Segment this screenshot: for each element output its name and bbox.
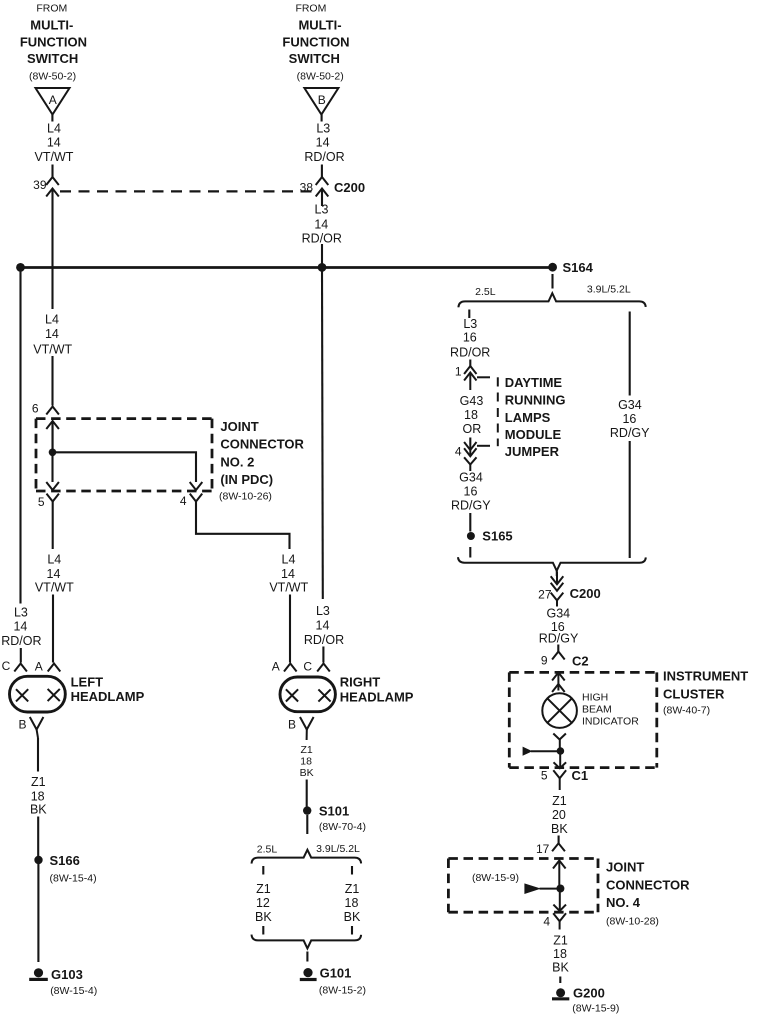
svg-text:12: 12 — [256, 896, 270, 910]
svg-text:BEAM: BEAM — [582, 704, 612, 716]
wire label Z1 18 BK (left) — [30, 775, 47, 817]
wire label L3 16 RD/OR — [450, 317, 490, 359]
high beam indicator lamp — [542, 693, 577, 728]
triangle connector A — [36, 88, 70, 115]
svg-text:Z1: Z1 — [552, 794, 567, 808]
wire into connector 38 — [321, 165, 323, 178]
svg-text:C: C — [303, 660, 312, 674]
svg-text:RD/OR: RD/OR — [304, 150, 344, 164]
svg-text:14: 14 — [314, 218, 328, 232]
wire S166 to G103 — [37, 864, 39, 962]
svg-text:L3: L3 — [316, 604, 330, 618]
svg-text:OR: OR — [463, 422, 482, 436]
svg-text:RD/GY: RD/GY — [539, 632, 579, 646]
wire label L3 14 RD/OR (above C200) — [304, 122, 344, 165]
svg-text:G34: G34 — [618, 398, 642, 412]
svg-text:VT/WT: VT/WT — [269, 581, 308, 595]
svg-text:Z1: Z1 — [31, 775, 46, 789]
arrow to other circuits (cluster) — [523, 747, 557, 756]
svg-text:RD/OR: RD/OR — [302, 232, 342, 246]
svg-text:Z1: Z1 — [256, 882, 271, 896]
right branch wire G34 — [629, 312, 631, 396]
svg-text:RD/OR: RD/OR — [304, 633, 344, 647]
svg-text:(8W-50-2): (8W-50-2) — [29, 71, 76, 83]
wire label L3 14 RD/OR (below C200) — [302, 203, 342, 246]
label DAYTIME RUNNING LAMPS MODULE JUMPER — [505, 375, 566, 459]
svg-text:C1: C1 — [572, 768, 589, 783]
wire label Z1 12 BK (2.5L) — [255, 882, 272, 924]
svg-text:B: B — [318, 93, 326, 107]
svg-text:BK: BK — [552, 961, 569, 975]
wire to S101 — [306, 780, 308, 807]
entry arrow into cluster — [552, 673, 565, 693]
svg-text:3.9L/5.2L: 3.9L/5.2L — [316, 843, 360, 855]
wire label L4 14 VT/WT (left lamp) — [35, 553, 74, 595]
left headlamp bulb X right — [48, 689, 60, 701]
svg-text:16: 16 — [464, 485, 478, 499]
stub into connector 9 — [557, 645, 559, 652]
svg-text:(8W-40-7): (8W-40-7) — [663, 705, 710, 717]
svg-text:18: 18 — [300, 755, 312, 767]
merge brace bottom (S164 branch) — [458, 557, 646, 571]
svg-text:MODULE: MODULE — [505, 427, 562, 442]
svg-text:L3: L3 — [316, 122, 330, 136]
split brace top (ground branch) — [252, 850, 362, 864]
in-line connector 38 / C200 — [316, 177, 329, 197]
svg-text:BK: BK — [300, 767, 314, 779]
svg-text:G101: G101 — [320, 966, 352, 981]
internal wire joint connector no.2 — [51, 421, 53, 482]
svg-text:C200: C200 — [570, 586, 601, 601]
svg-text:NO. 2: NO. 2 — [220, 455, 254, 470]
arrow to other circuits (joint connector no.4) — [524, 883, 556, 894]
left headlamp body — [10, 676, 66, 712]
svg-text:VT/WT: VT/WT — [35, 150, 74, 164]
svg-text:S166: S166 — [50, 853, 80, 868]
svg-text:18: 18 — [345, 896, 359, 910]
svg-text:FUNCTION: FUNCTION — [282, 35, 349, 50]
svg-text:RD/OR: RD/OR — [1, 634, 41, 648]
ground G200 — [552, 988, 569, 1000]
svg-text:G43: G43 — [460, 394, 484, 408]
svg-text:L3: L3 — [463, 317, 477, 331]
svg-text:VT/WT: VT/WT — [33, 343, 72, 357]
left branch stub — [468, 310, 470, 319]
svg-text:4: 4 — [180, 494, 187, 508]
wire 38 down to bus — [321, 189, 323, 207]
junction dot inside joint connector no.2 — [49, 449, 57, 457]
label JOINT CONNECTOR NO. 4 (8W-10-28) — [606, 860, 690, 928]
wire pin4 jog to right headlamp A — [196, 502, 290, 550]
left branch stub bottom — [262, 926, 264, 935]
instrument cluster dashed box — [509, 672, 657, 767]
svg-text:S164: S164 — [563, 260, 594, 275]
wire bus center down to right headlamp C — [321, 268, 324, 600]
svg-text:(8W-10-28): (8W-10-28) — [606, 916, 659, 928]
wire label L4 14 VT/WT (right lamp) — [269, 553, 308, 595]
right headlamp bulb X right — [318, 689, 330, 701]
splice S164 — [548, 263, 557, 272]
connector pin 6 into joint connector no.2 — [46, 407, 59, 449]
wire label G34 16 RD/GY (below jumper) — [451, 471, 491, 513]
svg-text:RD/GY: RD/GY — [610, 426, 650, 440]
svg-text:(8W-15-2): (8W-15-2) — [319, 985, 366, 997]
svg-text:5: 5 — [541, 769, 548, 783]
daytime running lamps module jumper dashed bracket — [477, 377, 498, 446]
svg-text:(IN PDC): (IN PDC) — [220, 472, 273, 487]
svg-text:HIGH: HIGH — [582, 692, 608, 704]
svg-text:L4: L4 — [282, 553, 296, 567]
svg-text:(8W-15-4): (8W-15-4) — [50, 985, 97, 997]
svg-text:20: 20 — [552, 808, 566, 822]
junction dot in cluster — [557, 747, 565, 755]
svg-text:(8W-15-4): (8W-15-4) — [50, 873, 97, 885]
svg-text:14: 14 — [316, 136, 330, 150]
svg-text:HEADLAMP: HEADLAMP — [340, 690, 414, 705]
svg-text:JOINT: JOINT — [220, 419, 258, 434]
svg-text:G34: G34 — [546, 607, 570, 621]
svg-text:(8W-10-26): (8W-10-26) — [219, 491, 272, 503]
splice S165 — [467, 532, 475, 540]
wire label L3 14 RD/OR (left lamp) — [1, 606, 41, 649]
svg-text:14: 14 — [316, 619, 330, 633]
ground G101 — [300, 968, 317, 981]
wire to S166 — [37, 817, 39, 857]
right headlamp bulb X left — [286, 689, 298, 701]
svg-text:RD/GY: RD/GY — [451, 499, 491, 513]
svg-text:Z1: Z1 — [553, 934, 568, 948]
internal arrow to pin 4 — [190, 482, 203, 490]
left branch stub top — [262, 866, 264, 875]
svg-text:RIGHT: RIGHT — [340, 675, 381, 690]
svg-text:VT/WT: VT/WT — [35, 581, 74, 595]
stub S165 to merge — [469, 547, 471, 558]
joint connector no.4 dashed box — [448, 859, 598, 913]
svg-text:39: 39 — [33, 178, 47, 192]
svg-text:C200: C200 — [334, 180, 365, 195]
svg-text:INDICATOR: INDICATOR — [582, 716, 639, 728]
junction dot left bus — [16, 263, 25, 272]
svg-text:LAMPS: LAMPS — [505, 410, 551, 425]
svg-text:16: 16 — [622, 412, 636, 426]
stub into connector 17 — [558, 836, 560, 844]
svg-text:G34: G34 — [459, 471, 483, 485]
svg-text:RUNNING: RUNNING — [505, 393, 566, 408]
svg-text:DAYTIME: DAYTIME — [505, 375, 563, 390]
in-line connector 39 — [46, 177, 59, 197]
svg-text:FUNCTION: FUNCTION — [20, 35, 87, 50]
svg-text:3.9L/5.2L: 3.9L/5.2L — [587, 284, 631, 296]
svg-text:(8W-70-4): (8W-70-4) — [319, 821, 366, 833]
left headlamp bulb X left — [16, 689, 28, 701]
svg-text:MULTI-: MULTI- — [30, 18, 73, 33]
svg-text:Z1: Z1 — [345, 882, 360, 896]
wire label G34 16 RD/GY (to cluster) — [539, 607, 579, 646]
right headlamp body — [280, 677, 335, 712]
svg-text:S165: S165 — [482, 529, 512, 544]
svg-text:27: 27 — [538, 588, 552, 602]
svg-text:2.5L: 2.5L — [475, 286, 496, 298]
joint connector no.2 dashed box — [36, 419, 212, 491]
stub to G200 — [559, 977, 561, 984]
svg-text:SWITCH: SWITCH — [289, 51, 340, 66]
label HIGH BEAM INDICATOR — [582, 692, 639, 728]
stub into connector 1 — [469, 360, 471, 367]
wire bus left down to left headlamp C — [19, 268, 21, 604]
svg-text:RD/OR: RD/OR — [450, 345, 490, 359]
wire label Z1 18 BK (right headlamp) — [300, 744, 314, 779]
label RIGHT HEADLAMP — [340, 675, 414, 705]
wire left headlamp B down — [37, 738, 39, 772]
wire from triangle A — [51, 115, 53, 122]
svg-text:1: 1 — [455, 365, 462, 379]
svg-text:14: 14 — [47, 136, 61, 150]
svg-text:BK: BK — [255, 910, 272, 924]
in-line connector 4 (jumper) — [464, 442, 476, 471]
svg-text:G200: G200 — [573, 986, 605, 1001]
svg-text:14: 14 — [45, 327, 59, 341]
bus wire (low beam feed) — [21, 266, 553, 269]
wire S164 down to split — [551, 274, 553, 289]
svg-text:14: 14 — [13, 620, 27, 634]
junction dot in joint connector no.4 — [556, 885, 564, 893]
svg-text:2.5L: 2.5L — [257, 844, 278, 856]
svg-text:G103: G103 — [51, 967, 83, 982]
svg-text:L4: L4 — [45, 313, 59, 327]
svg-text:A: A — [35, 660, 43, 674]
svg-text:BK: BK — [30, 803, 47, 817]
wire from triangle B — [321, 115, 323, 122]
svg-text:16: 16 — [463, 331, 477, 345]
svg-text:5: 5 — [38, 495, 45, 509]
svg-text:NO. 4: NO. 4 — [606, 895, 641, 910]
wire label L4 14 VT/WT (below bus) — [33, 313, 72, 357]
svg-text:C2: C2 — [572, 654, 589, 669]
exit arrow from joint connector no.4 — [553, 891, 566, 912]
svg-text:L4: L4 — [47, 122, 61, 136]
stub into connector 27 — [556, 571, 558, 576]
stub into connector 4 — [469, 438, 471, 445]
wire into connector 39 — [51, 165, 53, 178]
svg-text:INSTRUMENT: INSTRUMENT — [663, 668, 748, 683]
wire S101 to split — [306, 815, 308, 834]
svg-text:LEFT: LEFT — [71, 675, 104, 690]
splice S101 — [303, 806, 311, 814]
svg-text:S101: S101 — [319, 804, 349, 819]
dashed pair line to C200 — [60, 190, 314, 192]
svg-text:C: C — [2, 659, 11, 673]
svg-text:BK: BK — [344, 910, 361, 924]
stub to S165 — [469, 513, 471, 532]
svg-text:38: 38 — [300, 181, 314, 195]
wire label G43 18 OR — [460, 394, 484, 436]
wire label L3 14 RD/OR (right lamp) — [304, 604, 344, 647]
in-line connector 27 / C200 — [551, 572, 564, 607]
svg-text:(8W-50-2): (8W-50-2) — [297, 71, 344, 83]
svg-text:L4: L4 — [47, 553, 61, 567]
label: FROM MULTI-FUNCTION SWITCH (8W-50-2) left — [20, 3, 87, 83]
wire 39 down to joint connector no.2 (crosses bus) — [51, 189, 53, 310]
svg-text:CONNECTOR: CONNECTOR — [606, 878, 690, 893]
splice S166 — [34, 856, 42, 864]
svg-text:MULTI-: MULTI- — [298, 18, 341, 33]
wire pin5 down to left headlamp A — [52, 502, 54, 550]
wire to G101 — [306, 952, 308, 962]
right branch stub bottom — [351, 926, 353, 935]
in-line connector 1 — [464, 366, 476, 390]
svg-text:SWITCH: SWITCH — [27, 51, 78, 66]
svg-text:A: A — [49, 93, 57, 107]
svg-text:9: 9 — [541, 654, 548, 668]
svg-text:JOINT: JOINT — [606, 860, 644, 875]
label: FROM MULTI-FUNCTION SWITCH (8W-50-2) right — [282, 3, 349, 83]
svg-text:A: A — [272, 660, 280, 674]
label LEFT HEADLAMP — [71, 675, 145, 704]
svg-text:L3: L3 — [14, 606, 28, 620]
chevron below lamp — [553, 734, 566, 749]
right branch stub top — [351, 866, 353, 875]
svg-text:4: 4 — [543, 915, 550, 929]
svg-text:JUMPER: JUMPER — [505, 444, 560, 459]
junction dot center bus — [318, 263, 327, 272]
svg-text:17: 17 — [536, 842, 550, 856]
svg-text:FROM: FROM — [36, 3, 67, 15]
svg-text:BK: BK — [551, 822, 568, 836]
label INSTRUMENT CLUSTER (8W-40-7) — [663, 668, 748, 716]
svg-text:4: 4 — [455, 445, 462, 459]
triangle connector B — [304, 88, 338, 115]
svg-text:14: 14 — [281, 567, 295, 581]
svg-text:(8W-15-9): (8W-15-9) — [472, 872, 519, 884]
svg-text:6: 6 — [32, 402, 39, 416]
wire label Z1 20 BK — [551, 794, 568, 836]
svg-text:18: 18 — [553, 947, 567, 961]
svg-text:B: B — [18, 718, 26, 732]
wire label L4 14 VT/WT (top left) — [35, 122, 74, 165]
svg-text:18: 18 — [31, 790, 45, 804]
merge brace bottom (ground branch) — [252, 935, 362, 949]
wire label G34 16 RD/GY (right branch) — [610, 398, 650, 440]
exit arrow from cluster — [554, 754, 567, 768]
ground G103 — [29, 968, 48, 981]
svg-text:18: 18 — [464, 408, 478, 422]
wire label Z1 18 BK (to G200) — [552, 934, 569, 975]
label JOINT CONNECTOR NO. 2 (IN PDC) (8W-10-26) — [219, 419, 305, 503]
split brace top (S164 branch) — [458, 293, 645, 307]
svg-text:CONNECTOR: CONNECTOR — [220, 437, 304, 452]
svg-text:CLUSTER: CLUSTER — [663, 686, 725, 701]
entry arrow into joint connector no.4 — [553, 861, 566, 887]
svg-text:HEADLAMP: HEADLAMP — [71, 689, 145, 704]
svg-text:B: B — [288, 718, 296, 732]
svg-text:FROM: FROM — [295, 3, 326, 15]
svg-text:14: 14 — [47, 567, 61, 581]
svg-text:(8W-15-9): (8W-15-9) — [572, 1003, 619, 1015]
internal arrow to pin 5 — [46, 482, 59, 490]
wire label Z1 18 BK (3.9L/5.2L) — [344, 882, 361, 924]
svg-text:Z1: Z1 — [300, 744, 312, 756]
